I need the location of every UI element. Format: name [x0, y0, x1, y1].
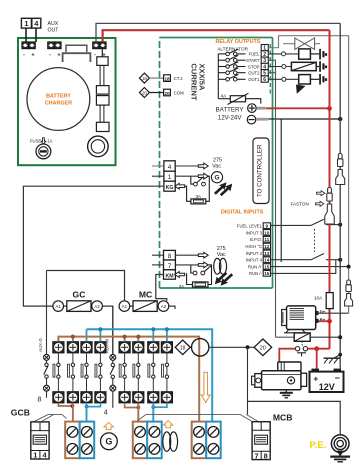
- wire pin3 start: [268, 60, 275, 337]
- fuse holder F1: [36, 144, 51, 159]
- svg-text:6: 6: [263, 77, 266, 83]
- pin stack KM: [164, 270, 176, 280]
- wire D+: [319, 312, 349, 314]
- pin stack 1: [164, 171, 175, 181]
- pin stack 7: [164, 260, 176, 270]
- arrows emphasis KG: [214, 182, 232, 196]
- battery plus terminal symbol: [248, 104, 266, 113]
- svg-text:1A: 1A: [47, 139, 52, 144]
- contactor MC pole 4 bottom terminal: [161, 392, 172, 403]
- wire GCB phase brown: [58, 403, 74, 423]
- contactor GC pole 4 top terminal: [95, 342, 106, 353]
- svg-text:1: 1: [24, 19, 28, 28]
- fuse F3 3A: [191, 176, 209, 204]
- regulator link a: [100, 65, 104, 85]
- svg-text:-: -: [23, 52, 25, 58]
- arrow in KM: [175, 272, 185, 278]
- node CT.1 diamond 18: [139, 73, 149, 83]
- polarity label group2: [49, 52, 61, 59]
- blue bus risers: [87, 327, 169, 341]
- contactor MC pole 3 contact: [148, 353, 155, 392]
- svg-text:-: -: [49, 52, 51, 58]
- contactor GC pole 3 bottom terminal: [81, 392, 92, 403]
- svg-text:10A: 10A: [314, 296, 323, 301]
- wire charger minus to B- rail: [96, 23, 340, 41]
- svg-text:FUEL LEVEL: FUEL LEVEL: [237, 224, 263, 229]
- svg-text:COM: COM: [174, 90, 185, 95]
- contactor MC pole 2 top terminal: [133, 342, 144, 353]
- wire KG loop to fuse: [185, 186, 191, 201]
- aux contact MC column: [110, 306, 116, 408]
- wire pin7 to arrow: [175, 264, 198, 266]
- terminal block mains phase right: [192, 422, 207, 459]
- svg-text:KG: KG: [166, 185, 174, 191]
- contactor MC pole 4 contact: [162, 353, 169, 392]
- stop solenoid Y2: [291, 62, 319, 70]
- relay contact K4: [218, 68, 245, 75]
- charger terminal block battery sense: [48, 42, 62, 49]
- wire MCB phase brown mid: [125, 403, 141, 421]
- svg-text:12: 12: [264, 244, 270, 249]
- svg-text:18: 18: [164, 76, 170, 81]
- contactor GC pole 2 bottom terminal: [67, 392, 78, 403]
- contactor MC pole 1 bottom terminal: [119, 392, 130, 403]
- wire B+ to red rail: [319, 319, 332, 324]
- label BATTERY 12V-24V: [216, 107, 244, 122]
- capacitor can C1: [88, 136, 109, 157]
- svg-text:A2: A2: [94, 304, 100, 309]
- wire plug4 to charger terminal: [35, 28, 37, 42]
- svg-text:ALTERNATOR: ALTERNATOR: [217, 47, 248, 52]
- svg-text:GC: GC: [73, 290, 86, 300]
- engine block terminal 2: [319, 61, 327, 72]
- svg-text:3A: 3A: [196, 194, 201, 199]
- regulator box 2: [96, 86, 109, 95]
- svg-text:BATTERY: BATTERY: [46, 94, 71, 100]
- regulator stub: [101, 49, 103, 57]
- breaker GCB: [31, 422, 49, 460]
- battery minus terminal symbol: [247, 115, 268, 124]
- connector circle pin6: [282, 77, 286, 81]
- wire charger plus to B+ rail (red): [103, 30, 330, 42]
- svg-text:Vac: Vac: [217, 252, 226, 258]
- brown bus wire: [58, 337, 199, 422]
- wire pin1 alternator lamp: [268, 36, 348, 314]
- label BATTERY CHARGER: [45, 94, 72, 107]
- wire BATT+ to red rail: [266, 107, 330, 109]
- svg-text:18: 18: [142, 76, 147, 81]
- wire MC A1 feed from aux-G: [47, 271, 125, 301]
- ganged link dashed: [314, 229, 316, 252]
- wire KM to MC A2: [156, 275, 167, 301]
- PE earth electrode: [330, 435, 350, 462]
- svg-text:20: 20: [164, 91, 170, 96]
- faston pair on D+ line: [346, 280, 351, 292]
- svg-text:11: 11: [264, 237, 269, 242]
- svg-text:TO CONTROLLER: TO CONTROLLER: [256, 144, 263, 197]
- fuse F5 10A: [314, 293, 333, 309]
- wire KG to GC A1: [23, 186, 164, 306]
- faston pointer arrow 2: [316, 201, 324, 206]
- charger terminal block AUX OUT: [22, 42, 36, 49]
- connector plug 1: [21, 18, 31, 28]
- pin stack 8: [164, 250, 176, 260]
- relay contact K3: [218, 62, 245, 69]
- wire pin4 to arrow: [175, 165, 198, 167]
- wire contact to starter solenoid (red): [279, 349, 295, 362]
- regulator link b: [100, 105, 104, 122]
- svg-text:INPUT 2: INPUT 2: [246, 251, 263, 256]
- svg-text:GCB: GCB: [11, 408, 30, 418]
- regulator box 1: [97, 57, 108, 66]
- svg-text:G: G: [105, 437, 112, 447]
- motor load symbol: [163, 432, 178, 451]
- svg-text:20: 20: [142, 90, 147, 95]
- terminal block gen neutral: [80, 422, 95, 459]
- wire pin4 stop: [268, 66, 291, 68]
- controller inner dashed edge: [269, 44, 271, 95]
- charger transformer circle: [27, 68, 90, 131]
- horn H1: [296, 75, 319, 94]
- svg-text:20: 20: [260, 346, 266, 352]
- svg-text:15: 15: [264, 264, 270, 269]
- pin stack KG: [164, 181, 175, 191]
- svg-text:INPUT 4: INPUT 4: [246, 258, 263, 263]
- svg-text:HIGH °C: HIGH °C: [245, 244, 262, 249]
- pin 6: [261, 76, 268, 83]
- pin 1: [261, 45, 268, 52]
- svg-text:16: 16: [264, 271, 270, 276]
- generator symbol G1: [211, 172, 222, 183]
- stub MC A2 right: [169, 306, 175, 309]
- terminal block mains phase mid: [133, 422, 148, 459]
- fuel solenoid Y1: [299, 49, 320, 59]
- polarity label group3: [94, 52, 106, 59]
- svg-text:P.E.: P.E.: [310, 440, 327, 451]
- svg-text:7: 7: [168, 263, 172, 270]
- terminal block mains neutral right: [206, 422, 221, 459]
- regulator box 4: [96, 122, 109, 131]
- svg-text:AUX-G: AUX-G: [38, 338, 43, 352]
- label AUX OUT: [48, 21, 60, 34]
- generator G symbol: [101, 433, 118, 450]
- contactor MC pole 2 bottom terminal: [133, 392, 144, 403]
- node COM diamond 20: [139, 88, 149, 98]
- label 275 Vac lower: [217, 246, 226, 258]
- svg-text:BATTERY: BATTERY: [216, 107, 244, 114]
- contactor GC pole 3 top terminal: [81, 342, 92, 353]
- connector plug 4: [32, 18, 41, 28]
- contactor MC pole 4 top terminal: [161, 342, 172, 353]
- svg-text:STOP: STOP: [248, 64, 260, 69]
- stub pin1: [152, 175, 164, 177]
- wire diamond18 to pin18: [149, 77, 163, 79]
- pin 9 FUEL LEVEL: [237, 223, 271, 229]
- contactor GC pole 1 top terminal: [53, 342, 64, 353]
- svg-text:14: 14: [264, 258, 270, 263]
- label FUSE 1A: [30, 138, 53, 144]
- svg-text:RUN /-: RUN /-: [249, 271, 263, 276]
- pin 12 HIGH °C: [245, 243, 270, 249]
- svg-text:B.P.O.: B.P.O.: [250, 237, 262, 242]
- starter relay K7: [276, 333, 343, 341]
- svg-text:12V-24V: 12V-24V: [218, 115, 243, 122]
- arrow out pin7: [198, 262, 208, 268]
- wire pin6 out1: [268, 78, 298, 80]
- bracket clamp lower: [63, 53, 91, 62]
- contactor coil GC: [53, 301, 102, 312]
- starter ground: [280, 390, 293, 398]
- stub pin8: [152, 254, 164, 256]
- contactor GC pole 1 contact: [53, 353, 60, 392]
- faston pair on B- rail: [338, 154, 343, 167]
- pin 4: [261, 63, 268, 70]
- connector circle pin2: [282, 52, 286, 56]
- svg-text:MCB: MCB: [273, 412, 293, 422]
- engine block terminal 3: [319, 74, 327, 85]
- svg-text:OUT1: OUT1: [248, 77, 260, 82]
- contactor GC pole 2 contact: [68, 353, 75, 392]
- relay common rail: [217, 54, 219, 99]
- valve V1: [283, 38, 320, 49]
- wire solenoid to battery plus (red): [308, 346, 330, 368]
- contactor GC pole 4 contact: [95, 353, 102, 392]
- faston pointer arrow 1: [317, 191, 325, 196]
- svg-text:FUSE: FUSE: [30, 139, 41, 144]
- controller U1 enclosure XXX/5A: [160, 38, 273, 289]
- brown bus risers: [71, 335, 140, 342]
- contactor MC pole 2 contact: [133, 353, 140, 392]
- svg-text:10: 10: [264, 230, 270, 235]
- wire COM node down: [247, 347, 249, 414]
- svg-text:DIGITAL INPUTS: DIGITAL INPUTS: [221, 210, 264, 216]
- svg-text:A2: A2: [161, 304, 167, 309]
- stub pin7: [152, 264, 164, 266]
- TO CONTROLLER box: [253, 138, 269, 204]
- wire diamond20 to pin20: [149, 92, 163, 94]
- pin 16 RUN /-: [249, 271, 271, 277]
- terminal block gen phase: [65, 422, 80, 459]
- faston pair on B+ rail: [327, 188, 332, 202]
- pin 13 INPUT 2: [246, 250, 271, 256]
- node diamond 18 bottom: [175, 340, 190, 355]
- svg-text:12V: 12V: [319, 382, 335, 392]
- arrow out pin1: [198, 173, 208, 179]
- svg-text:CHARGER: CHARGER: [45, 101, 72, 107]
- battery charger enclosure: [18, 38, 116, 165]
- arrows emphasis KM: [215, 272, 233, 286]
- orange arrow G: [104, 422, 113, 429]
- B- rail vertical: [339, 23, 341, 368]
- relay contact K5: [218, 75, 245, 82]
- svg-text:FASTON: FASTON: [291, 202, 309, 207]
- wire to PE: [248, 401, 341, 434]
- relay contact K1: [218, 49, 245, 56]
- pin 20 COM: [164, 89, 185, 96]
- relay contact link dashed: [301, 341, 303, 345]
- contactor MC pole 3 bottom terminal: [148, 392, 159, 403]
- mains transformer symbol: [214, 258, 227, 274]
- pin 10 INPUT 3: [246, 230, 271, 236]
- svg-text:RUN /+: RUN /+: [248, 264, 263, 269]
- contactor GC pole 1 bottom terminal: [53, 392, 64, 403]
- switch S-KG: [191, 177, 206, 187]
- orange arrow M: [164, 421, 173, 428]
- svg-text:18: 18: [180, 345, 186, 351]
- B+ rail vertical (red): [329, 30, 331, 349]
- svg-text:13: 13: [264, 251, 270, 256]
- svg-text:8: 8: [38, 397, 42, 404]
- engine block terminal 1: [319, 49, 327, 60]
- svg-text:AUX: AUX: [48, 21, 59, 27]
- svg-text:4A: 4A: [221, 93, 228, 98]
- contactor GC pole 3 contact: [81, 353, 88, 392]
- wire GC A2 down (aux-M feed): [102, 306, 112, 354]
- loom line GCB: [34, 415, 67, 422]
- current transformer CT1: [190, 339, 209, 356]
- svg-text:4: 4: [168, 164, 172, 171]
- svg-text:275: 275: [217, 246, 226, 252]
- svg-text:OUT2: OUT2: [248, 71, 260, 76]
- contactor GC pole 4 bottom terminal: [95, 392, 106, 403]
- svg-text:KM: KM: [165, 273, 173, 279]
- wire pin16 run minus: [271, 260, 336, 274]
- contactor MC pole 1 top terminal: [119, 342, 130, 353]
- svg-text:7: 7: [255, 451, 259, 460]
- svg-text:RELAY OUTPUTS: RELAY OUTPUTS: [216, 39, 261, 45]
- pin 3: [261, 57, 268, 64]
- aux contact GC column: [44, 271, 50, 398]
- pin 14 INPUT 4: [246, 257, 271, 263]
- wire plug1 to charger terminal: [25, 28, 27, 42]
- contactor MC pole 1 contact: [119, 353, 126, 392]
- connector circle pin4: [282, 65, 286, 69]
- svg-text:CURRENT: CURRENT: [189, 63, 198, 100]
- wire pin5 out2: [268, 72, 275, 74]
- bracket clamp upper: [66, 45, 87, 52]
- relay contact K2: [218, 55, 245, 62]
- svg-text:8: 8: [168, 253, 172, 260]
- wire MCB neutral blue mid: [151, 403, 166, 421]
- contactor MC pole 3 top terminal: [148, 342, 159, 353]
- polarity label group1: [23, 52, 35, 59]
- svg-text:A1: A1: [122, 304, 128, 309]
- svg-text:1: 1: [168, 174, 172, 181]
- svg-text:FUEL: FUEL: [249, 52, 261, 57]
- svg-text:1: 1: [33, 451, 37, 460]
- svg-text:MC: MC: [139, 290, 152, 300]
- svg-text:4: 4: [104, 410, 108, 417]
- pin 11 B.P.O.: [250, 236, 270, 242]
- battery BT1 12V: [310, 369, 344, 393]
- contactor GC pole 2 top terminal: [67, 342, 78, 353]
- svg-text:8: 8: [264, 451, 268, 460]
- svg-text:INPUT 3: INPUT 3: [246, 230, 263, 235]
- arrow out pin8: [198, 252, 208, 258]
- label 275 Vac upper: [212, 158, 222, 170]
- chassis ground: [324, 353, 343, 364]
- wire pin1 to arrow: [175, 175, 198, 177]
- blue bus wire: [87, 329, 213, 421]
- pin 18 CT.1: [164, 75, 184, 82]
- wire CT to COM node: [209, 345, 254, 349]
- svg-text:3A: 3A: [179, 284, 184, 289]
- wire minus branch down: [280, 119, 282, 262]
- wire pin15 run plus: [271, 265, 351, 269]
- solenoid contacts: [295, 347, 307, 357]
- contactor coil MC: [119, 301, 169, 312]
- svg-text:+: +: [313, 374, 318, 384]
- arrow in KG: [175, 183, 185, 189]
- wire BATT- to minus rail: [269, 118, 341, 120]
- regulator box 3: [96, 96, 109, 106]
- svg-text:-: -: [94, 52, 96, 58]
- svg-text:CT.1: CT.1: [174, 76, 184, 81]
- alternator G2: [282, 306, 319, 333]
- breaker MCB: [252, 422, 270, 461]
- junction battery plus: [327, 106, 332, 111]
- pin stack 4: [164, 161, 175, 171]
- svg-text:OUT: OUT: [48, 28, 60, 34]
- junction battery minus: [338, 117, 342, 121]
- loom line MCB: [138, 414, 259, 421]
- svg-text:−: −: [335, 373, 340, 383]
- wire pin8 to arrow: [175, 254, 198, 256]
- fuse F2 4A: [218, 93, 260, 104]
- wire pin14 with switch: [271, 254, 343, 262]
- pin 5: [261, 70, 268, 77]
- terminal block mains neutral mid: [147, 422, 162, 459]
- svg-text:A1: A1: [56, 304, 62, 309]
- wire GCB neutral blue: [85, 403, 101, 423]
- wire pin2 fuel: [268, 53, 298, 55]
- svg-text:Vac: Vac: [212, 163, 221, 169]
- arrow out pin4: [198, 163, 208, 169]
- flow arrow down: [201, 372, 210, 402]
- pin 15 RUN /+: [248, 264, 271, 270]
- wire pin9 with switch: [271, 219, 343, 226]
- svg-text:START: START: [246, 58, 260, 63]
- stub pin4: [152, 165, 164, 167]
- fuse F4 3A: [179, 265, 212, 289]
- node diamond 20 bottom: [254, 339, 272, 356]
- starter motor M1: [252, 362, 307, 390]
- switch S-KM: [191, 265, 211, 275]
- charger terminal block DC output: [93, 42, 107, 49]
- svg-text:G: G: [215, 175, 220, 182]
- svg-text:9: 9: [266, 224, 269, 229]
- pin 2: [261, 51, 268, 58]
